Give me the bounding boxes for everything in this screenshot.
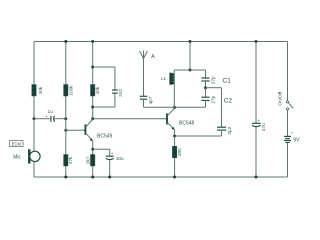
svg-text:27p: 27p: [211, 76, 216, 84]
svg-text:10u: 10u: [116, 156, 124, 161]
capacitor C1 27p: [201, 70, 231, 88]
svg-text:+: +: [111, 151, 114, 156]
wire divider to 27k: [65, 130, 67, 154]
node 47u ground: [255, 176, 258, 179]
svg-text:BC549: BC549: [97, 133, 113, 139]
inductor L1: [161, 70, 174, 107]
svg-text:+: +: [258, 118, 261, 123]
svg-text:27p: 27p: [211, 95, 216, 103]
svg-text:10k: 10k: [95, 86, 100, 94]
antenna A: [140, 51, 156, 97]
wire 10k bottom to 1u node: [33, 96, 35, 119]
svg-text:2n2: 2n2: [118, 89, 123, 97]
svg-text:10k: 10k: [38, 86, 43, 94]
svg-text:BC548: BC548: [179, 121, 195, 127]
svg-text:2k7: 2k7: [86, 156, 91, 164]
transistor Q2 BC548: [167, 107, 195, 136]
wire bottom ground rail: [34, 176, 288, 178]
node 10u ground: [108, 176, 111, 179]
resistor 390: [172, 146, 182, 158]
svg-text:4p7: 4p7: [148, 96, 153, 104]
wire battery to ground rail: [287, 142, 289, 177]
node base tee: [64, 129, 67, 132]
node Q2 collector (tank bottom): [173, 106, 176, 109]
node divider top tap: [64, 117, 67, 120]
svg-text:1u: 1u: [48, 109, 54, 114]
switch On/Off: [277, 91, 293, 110]
wire mic to ground rail: [33, 162, 35, 177]
wire tank top: [174, 69, 205, 71]
svg-text:+: +: [291, 130, 294, 135]
node 100k top: [64, 40, 67, 43]
svg-text:2p2: 2p2: [227, 126, 232, 134]
svg-text:27k: 27k: [68, 156, 73, 164]
node Q1 emitter: [91, 148, 94, 151]
svg-text:A: A: [151, 54, 155, 60]
transistor Q1 BC549: [85, 119, 112, 149]
wire tank bottom: [144, 106, 206, 108]
svg-text:C1: C1: [223, 78, 232, 85]
node 2n2 bottom tee: [91, 106, 94, 109]
svg-text:+: +: [45, 114, 48, 119]
capacitor 2n2 (parallel loop): [93, 67, 123, 107]
wire switch to battery: [287, 110, 289, 137]
resistor 100k: [64, 85, 74, 97]
wire 10k load bottom: [92, 96, 94, 119]
resistor 27k: [64, 155, 74, 167]
wire top supply rail: [34, 41, 288, 43]
svg-text:100k: 100k: [68, 85, 73, 96]
battery 9V: [284, 130, 300, 143]
svg-text:47u: 47u: [261, 123, 266, 131]
node Q1 collector: [91, 117, 94, 120]
capacitor 10u (emitter bypass): [93, 149, 124, 177]
wire emitter to 2k7: [92, 149, 94, 154]
resistor 2k7: [86, 155, 95, 167]
svg-text:Mic: Mic: [13, 154, 21, 160]
node 2n2 top tee: [91, 66, 94, 69]
wire base of Q1: [66, 129, 86, 131]
resistor 10k (mic feed): [32, 85, 43, 97]
capacitor 47u (supply filter): [252, 42, 266, 178]
node 27k ground: [64, 176, 67, 179]
wire left rail upper segment: [33, 42, 35, 85]
electret microphone ECM Mic: [10, 141, 41, 164]
node collector branch top: [91, 40, 94, 43]
svg-text:L1: L1: [161, 76, 166, 81]
svg-text:ECM: ECM: [12, 141, 22, 146]
capacitor 1u (coupling): [34, 109, 66, 122]
wire 100k branch upper: [65, 42, 67, 85]
node 2k7 ground: [91, 176, 94, 179]
wire rail to tank top: [189, 42, 191, 71]
wire 390 to ground: [174, 158, 176, 177]
node Q2 emitter: [173, 135, 176, 138]
wire emitter to 390: [174, 136, 176, 146]
wire collector branch upper: [92, 42, 94, 85]
svg-text:9V: 9V: [293, 138, 300, 144]
node 1u tap: [33, 117, 36, 120]
node 390 ground: [173, 176, 176, 179]
wire 100k bottom to divider: [65, 96, 67, 130]
svg-text:On/Off: On/Off: [277, 91, 282, 105]
node C1/C2 junction: [204, 86, 207, 89]
wire 27k to ground: [65, 166, 67, 177]
capacitor C2 27p: [201, 88, 232, 108]
resistor 10k (collector load): [91, 85, 101, 97]
node tank feed on rail: [189, 40, 192, 43]
wire 2k7 to ground: [92, 166, 94, 177]
node tank top: [189, 69, 192, 72]
svg-text:C2: C2: [224, 97, 233, 104]
wire node to mic: [33, 119, 35, 152]
wire Q1 collector to Q2 base: [93, 118, 167, 120]
node 47u top: [255, 40, 258, 43]
svg-text:390: 390: [177, 148, 182, 156]
capacitor 4p7 (antenna coupling): [140, 96, 153, 107]
capacitor 2p2 (feedback): [175, 88, 233, 136]
wire right rail upper: [287, 42, 289, 102]
